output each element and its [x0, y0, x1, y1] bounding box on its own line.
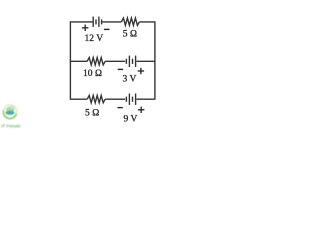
svg-text:9 V: 9 V [123, 115, 137, 125]
svg-text:12 V: 12 V [85, 34, 104, 44]
svg-text:IT Forum: IT Forum [1, 124, 20, 129]
svg-text:3 V: 3 V [122, 75, 136, 85]
svg-text:10 Ω: 10 Ω [83, 69, 102, 79]
svg-text:5 Ω: 5 Ω [123, 30, 137, 40]
svg-text:5 Ω: 5 Ω [85, 109, 99, 119]
